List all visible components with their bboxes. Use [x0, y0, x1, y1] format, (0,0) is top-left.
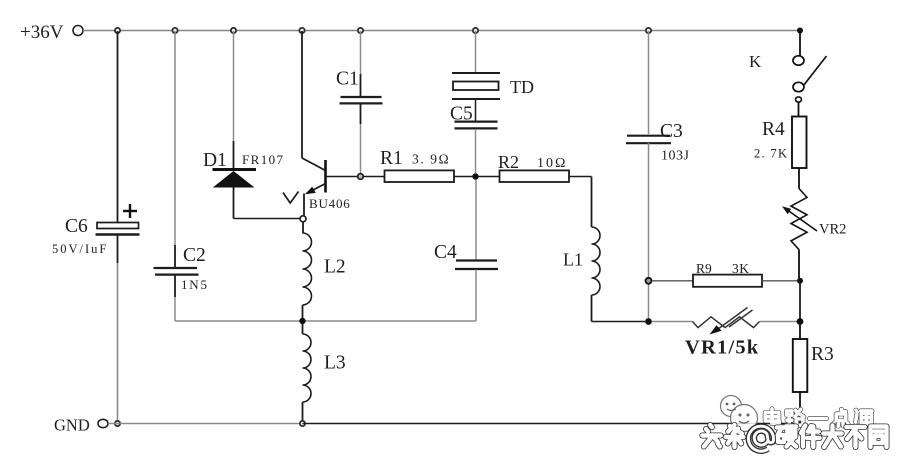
- inductor L1: [563, 177, 600, 322]
- svg-text:R9: R9: [696, 261, 712, 276]
- junction R1/R2/C4/C5 node: [472, 173, 478, 179]
- svg-text:L1: L1: [563, 250, 583, 270]
- svg-text:C1: C1: [336, 69, 359, 90]
- svg-text:C3: C3: [660, 121, 683, 142]
- capacitor C3 103J: [626, 31, 690, 318]
- svg-text:2. 7K: 2. 7K: [754, 147, 788, 161]
- svg-text:VR1/5k: VR1/5k: [685, 337, 759, 359]
- switch K: [749, 28, 827, 117]
- junction rail x=648: [646, 28, 651, 33]
- inductor L3: [303, 324, 346, 424]
- resistor R9 3K: [652, 261, 797, 287]
- node +36V terminal: [20, 22, 83, 43]
- svg-text:3. 9Ω: 3. 9Ω: [412, 152, 450, 167]
- junction R9/VR2 node: [797, 278, 803, 284]
- capacitor C2: [154, 31, 209, 321]
- svg-text:+36V: +36V: [20, 22, 64, 43]
- junction rail x=302: [299, 28, 304, 33]
- resistor R2 10ohm: [479, 152, 592, 182]
- svg-text:103J: 103J: [661, 149, 690, 164]
- svg-text:C5: C5: [450, 104, 473, 125]
- resistor R3: [793, 322, 834, 424]
- svg-text:FR107: FR107: [242, 152, 284, 167]
- potentiometer VR2: [782, 189, 846, 279]
- potentiometer VR1 5k: [652, 308, 797, 359]
- junction rail x=475: [473, 28, 478, 33]
- svg-text:1N5: 1N5: [181, 277, 209, 292]
- svg-text:BU406: BU406: [309, 196, 351, 211]
- watermark logo: [721, 396, 758, 432]
- watermark text 电路一点通: [765, 409, 872, 426]
- junction C3 bottom / VR1 / L1 node: [645, 318, 652, 325]
- wire top rail: [83, 30, 800, 32]
- svg-text:10Ω: 10Ω: [537, 156, 567, 171]
- wire VR2 to R9 to VR1 column: [799, 281, 801, 322]
- capacitor C5: [450, 104, 498, 174]
- junction GND/L3: [300, 421, 305, 426]
- capacitor C6: [52, 31, 140, 424]
- junction rail x=175: [172, 28, 177, 33]
- wire L1 bottom to C3 node: [592, 321, 646, 323]
- watermark text 头条@硬件大不同: [702, 425, 886, 451]
- wire D1 anode to emitter node: [234, 218, 300, 220]
- svg-text:3K: 3K: [732, 261, 750, 276]
- svg-text:R1: R1: [380, 148, 403, 169]
- svg-text:L2: L2: [324, 257, 346, 278]
- svg-text:R4: R4: [762, 119, 785, 140]
- wire node bottom-left (C2/L2/C4 net): [175, 320, 476, 322]
- resonator TD: [452, 31, 534, 121]
- junction GND/C6: [115, 421, 120, 426]
- diode D1 FR107: [203, 31, 284, 219]
- inductor L2: [303, 222, 346, 318]
- svg-text:D1: D1: [203, 150, 227, 171]
- junction rail x=360: [358, 28, 363, 33]
- junction C3/R9 node (ring): [646, 278, 652, 284]
- svg-text:VR2: VR2: [819, 222, 846, 238]
- junction rail x=117: [115, 28, 120, 33]
- capacitor C4: [434, 180, 498, 322]
- svg-text:C4: C4: [434, 242, 457, 263]
- svg-text:K: K: [749, 52, 762, 71]
- svg-text:GND: GND: [54, 416, 90, 435]
- node base junction (open ring): [358, 174, 364, 180]
- resistor R4 2.7K: [754, 117, 807, 189]
- node GND terminal: [54, 416, 108, 435]
- svg-text:C2: C2: [183, 245, 206, 266]
- junction rail x=233: [231, 28, 236, 33]
- svg-text:C6: C6: [65, 216, 88, 237]
- svg-text:50V/IuF: 50V/IuF: [52, 242, 108, 256]
- wire ground rail left: [108, 423, 303, 425]
- transistor Q1 BU406: [283, 31, 358, 216]
- junction L2/L3/C2 node: [299, 318, 305, 324]
- svg-text:TD: TD: [510, 77, 534, 97]
- node emitter junction (open ring): [300, 216, 306, 222]
- capacitor C1: [336, 31, 383, 174]
- resistor R1 3.9ohm: [364, 148, 473, 182]
- svg-text:L3: L3: [324, 353, 346, 374]
- svg-text:R3: R3: [811, 344, 834, 365]
- wire ground rail right: [303, 423, 801, 425]
- svg-text:R2: R2: [498, 152, 519, 172]
- junction VR1/R3 node: [797, 318, 804, 325]
